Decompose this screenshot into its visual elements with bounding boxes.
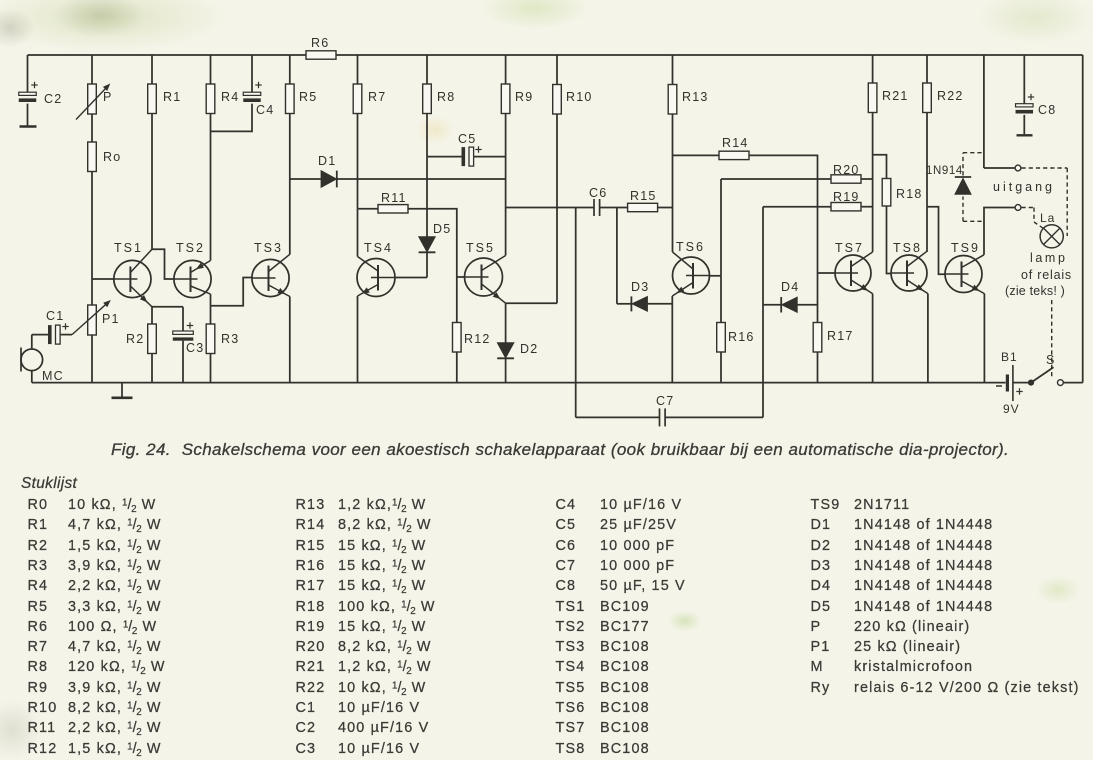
wire D3 anode to TS6 emitter column (648, 303, 673, 305)
wire R17 to bottom rail (817, 352, 819, 383)
wire R20 left riser (720, 179, 722, 276)
svg-text:(zie teks! ): (zie teks! ) (1005, 284, 1065, 298)
wire R5 column top (289, 55, 291, 84)
label C6 (589, 186, 607, 200)
wire R10 column top (556, 55, 558, 85)
label C3 (186, 341, 204, 355)
label R19 (833, 190, 860, 204)
wire mic bottom to rail (31, 371, 33, 383)
svg-text:B1: B1 (1001, 350, 1018, 364)
plus mark C3 + (187, 322, 193, 328)
label P1 (102, 312, 120, 326)
svg-text:lamp: lamp (1030, 251, 1068, 265)
resistor R13 body (668, 85, 677, 115)
label P (103, 90, 113, 104)
diode D5 (419, 237, 436, 253)
wire R19 left lead (763, 206, 831, 208)
label D4 (781, 280, 799, 294)
label R10 (566, 90, 593, 104)
plus mark C5 + (475, 146, 481, 152)
svg-text:R4: R4 (221, 90, 239, 104)
wire C7 left lead (576, 416, 660, 418)
diode 1N914 (955, 177, 971, 194)
resistor R16 body (717, 323, 726, 353)
label R17 (827, 329, 854, 343)
wire R12 to bottom rail (456, 352, 458, 383)
svg-text:TS3: TS3 (254, 241, 283, 255)
wire R18 down to TS8 base (887, 206, 892, 274)
wire TS4 base to D5 (395, 277, 427, 279)
ground symbol (112, 383, 133, 398)
wire R2 top (151, 307, 153, 324)
terminal lower uitgang (1015, 205, 1021, 211)
wire C7 right riser to R19 row (crosses rail) (762, 207, 764, 418)
svg-text:of relais: of relais (1021, 268, 1072, 282)
wire R21 column top (872, 55, 874, 83)
label R7 (368, 90, 386, 104)
label R5 (299, 90, 317, 104)
label B1 (1001, 350, 1018, 364)
svg-text:D4: D4 (781, 280, 799, 294)
svg-text:R8: R8 (437, 90, 455, 104)
wire R2 to bottom rail (151, 354, 153, 383)
svg-text:R13: R13 (682, 90, 709, 104)
terminal bar below C8 (1017, 134, 1033, 136)
wire TS1 emitter junction to C3 (152, 306, 183, 308)
wire R12 top from TS5 base (456, 277, 458, 323)
diode 1N914 dashed cathode link (963, 153, 984, 176)
label TS5 (466, 241, 495, 255)
svg-text:R15: R15 (630, 189, 657, 203)
wire R16 to bottom rail (720, 352, 722, 383)
wire R11 row to TS4 collector (357, 209, 359, 257)
wire R19 right lead (861, 206, 873, 208)
wire P1 to bottom rail (91, 335, 93, 383)
capacitor C3 stem top (182, 307, 184, 331)
wire TS6 base to R16 column (710, 275, 722, 277)
svg-text:R20: R20 (833, 163, 860, 177)
wire C4 bottom to R4 column (211, 104, 253, 132)
wire right edge return (switch to top rail) (1063, 55, 1083, 383)
capacitor C5 (462, 147, 474, 166)
wire C5 left lead (427, 156, 462, 158)
label C4 (256, 103, 274, 117)
wire bottom ground rail (32, 382, 1006, 384)
wire R9 column top (505, 55, 507, 84)
svg-text:R12: R12 (464, 332, 491, 346)
wire D1 row to TS3 collector (289, 179, 291, 255)
diode D3 (631, 296, 647, 311)
parts list heading (21, 475, 77, 493)
wire C1 to P1 wiper (60, 334, 72, 336)
wire R13 down to TS6 collector (672, 208, 674, 253)
wire R7 down to R11 row (357, 114, 359, 209)
wire R8 column down to D5 (crosses R11) (426, 157, 428, 237)
svg-text:MC: MC (42, 369, 64, 383)
wire D3 riser from C6-R15 junction (616, 208, 618, 304)
transistor TS2 (BC177) (174, 260, 211, 297)
wire C4 column top (251, 55, 253, 94)
resistor R14 body (719, 151, 749, 159)
label R6 (311, 36, 329, 50)
figure caption (111, 440, 1009, 460)
resistor R19 body (831, 203, 861, 211)
node R22 junction jog to TS9 base (927, 207, 945, 275)
wire R8 column top (426, 55, 428, 84)
label TS1 (114, 241, 143, 255)
svg-text:R2: R2 (126, 332, 144, 346)
svg-text:C5: C5 (458, 132, 476, 146)
resistor R5 body (286, 84, 295, 114)
wire TS5 emitter row to R10 column (506, 302, 557, 304)
svg-text:uitgang: uitgang (993, 180, 1055, 194)
resistor P (220k pot) body (88, 84, 97, 114)
svg-text:R1: R1 (163, 90, 181, 104)
wire R3 to bottom rail (210, 354, 212, 383)
wire R22 down to junction (926, 113, 928, 207)
svg-text:TS5: TS5 (466, 241, 495, 255)
wire TS9 emitter to bottom rail (983, 294, 985, 383)
wire TS7 base row (818, 272, 836, 274)
transistor TS3 (BC108) (252, 254, 290, 296)
transistor TS1 (BC109) (114, 249, 152, 306)
wire P column top (91, 55, 93, 84)
transistor TS7 (BC108) (835, 252, 873, 294)
wire R16 top (720, 276, 722, 323)
label TS3 (254, 241, 283, 255)
wire R1 down to TS1 collector elbow (151, 114, 153, 250)
resistor R9 body (501, 84, 510, 114)
potentiometer P1 wiper arrow (72, 301, 110, 335)
wire D5 cathode to TS4 base row (426, 252, 428, 277)
label 1N914 (926, 165, 963, 177)
resistor P1 (25k pot) body (88, 305, 97, 335)
wire dashed lamp to switch row (1051, 300, 1053, 379)
svg-text:R16: R16 (728, 330, 755, 344)
terminal upper uitgang (1015, 165, 1021, 171)
svg-text:D1: D1 (318, 154, 336, 168)
wire D4 anode to R17 column (797, 304, 817, 306)
label (zie tekst) (1005, 284, 1065, 298)
wire TS8 emitter to bottom rail (927, 294, 929, 383)
svg-text:C2: C2 (44, 92, 62, 106)
wire P to Ro (91, 114, 93, 142)
svg-text:D2: D2 (520, 342, 538, 356)
svg-text:R5: R5 (299, 90, 317, 104)
parts list columns (28, 495, 166, 759)
transistor TS5 (BC108) (465, 256, 506, 304)
svg-text:R7: R7 (368, 90, 386, 104)
label C7 (656, 394, 674, 408)
wire R21 down through junctions to TS7 collector (872, 113, 874, 253)
svg-text:C1: C1 (46, 309, 64, 323)
label R22 (937, 89, 964, 103)
label C1 (46, 309, 64, 323)
label La (1040, 211, 1055, 225)
wire R20 left lead (721, 178, 831, 180)
plus mark C4 + (255, 82, 261, 88)
battery B1 (1007, 365, 1013, 401)
label MC (42, 369, 64, 383)
resistor R22 body (923, 83, 932, 113)
svg-text:TS8: TS8 (893, 241, 922, 255)
svg-text:TS9: TS9 (951, 241, 980, 255)
svg-text:R11: R11 (381, 191, 407, 205)
label R13 (682, 90, 709, 104)
svg-text:P1: P1 (102, 312, 120, 326)
transistor TS4 (BC108) (357, 257, 395, 297)
lamp La (1040, 225, 1063, 248)
wire R22 column top (926, 55, 928, 83)
svg-text:R10: R10 (566, 90, 593, 104)
label R8 (437, 90, 455, 104)
wire to upper output terminal (984, 167, 1015, 169)
wire R11 right lead and drop to TS5 base (408, 209, 465, 277)
label 9V (1003, 402, 1020, 416)
svg-text:TS4: TS4 (364, 241, 393, 255)
svg-text:R14: R14 (722, 136, 749, 150)
label TS6 (676, 240, 705, 254)
svg-text:D3: D3 (631, 280, 649, 294)
capacitor C4 (243, 92, 261, 102)
label uitgang (993, 180, 1055, 194)
label D5 (433, 222, 451, 236)
label R14 (722, 136, 749, 150)
node TS2 collector junction to TS3 base (211, 278, 252, 306)
label of relais (1021, 268, 1072, 282)
plus mark C1 + (62, 323, 68, 329)
terminal bar below C2 (20, 125, 37, 127)
label TS7 (835, 241, 864, 255)
wire R20 right lead (861, 178, 873, 180)
transistor TS9 (2N1711) (945, 255, 984, 294)
wire R1 column top (151, 55, 153, 84)
wire R4 column top (210, 55, 212, 84)
label lamp (1030, 251, 1068, 265)
capacitor C2 stem (27, 55, 29, 127)
svg-text:C6: C6 (589, 186, 607, 200)
wire R7 column top (357, 55, 359, 84)
wire C5 right lead (474, 156, 506, 158)
svg-text:R3: R3 (221, 332, 239, 346)
node TS1 collector to TS2 base jog (152, 249, 174, 279)
wire R9 column to TS5 collector (505, 208, 507, 256)
svg-text:La: La (1040, 211, 1055, 225)
wire R10 down to TS5 emitter row (556, 114, 558, 303)
wire R8 down to C5 junction (426, 114, 428, 157)
wire R5 down to D1 row (289, 114, 291, 180)
diode D4 (781, 297, 797, 313)
wire R22 to TS8 collector (926, 207, 928, 252)
resistor R18 body (882, 179, 891, 207)
resistor R6 body (306, 51, 336, 59)
svg-text:D5: D5 (433, 222, 451, 236)
label R12 (464, 332, 491, 346)
wire TS9 collector riser (984, 208, 1015, 255)
wire mic top stem (31, 335, 33, 349)
wire dashed upper terminal to lamp (1022, 168, 1068, 236)
svg-text:TS1: TS1 (114, 241, 143, 255)
svg-text:C3: C3 (186, 341, 204, 355)
resistor R2 body (148, 324, 157, 354)
label Ro (103, 150, 121, 164)
label TS8 (893, 241, 922, 255)
plus mark battery + (1016, 388, 1022, 394)
wire mic to C1 (32, 334, 48, 336)
transistor TS6 (BC108) (672, 252, 709, 296)
diode D1 anode wire (290, 178, 321, 180)
wire R14 left lead (673, 154, 720, 156)
svg-text:R21: R21 (882, 89, 909, 103)
capacitor C3 (173, 331, 194, 341)
resistor Ro body (88, 142, 97, 172)
resistor R17 body (813, 323, 822, 353)
wire C6 to R15 (600, 207, 628, 209)
wire TS1 base from P1 column (92, 278, 114, 280)
microphone MC (21, 348, 43, 372)
label D3 (631, 280, 649, 294)
label R21 (882, 89, 909, 103)
label R15 (630, 189, 657, 203)
plus mark C2 + (31, 82, 37, 88)
wire R4 down to TS2 emitter elbow (210, 114, 212, 261)
resistor R8 body (423, 84, 432, 114)
resistor R20 body (831, 175, 861, 183)
wire R9 down through C5 and D1 junctions (505, 114, 507, 208)
svg-text:R17: R17 (827, 329, 854, 343)
resistor R21 body (868, 83, 877, 113)
potentiometer P wiper arrow (76, 84, 110, 119)
wire R13 down to R14 junction (672, 114, 674, 155)
label R1 (163, 90, 181, 104)
label S (1046, 353, 1055, 367)
resistor R15 body (628, 203, 658, 211)
svg-text:R18: R18 (896, 187, 923, 201)
capacitor C8 (1016, 104, 1034, 114)
wire battery to switch (1013, 382, 1028, 384)
wire D2 top (505, 303, 507, 342)
wire dashed lower terminal to lamp top (1022, 208, 1044, 229)
label D2 (520, 342, 538, 356)
wire D2 cathode to bottom rail (505, 358, 507, 382)
svg-text:TS2: TS2 (176, 241, 205, 255)
resistor R4 body (206, 84, 215, 114)
wire TS7 emitter to bottom rail (872, 294, 874, 383)
svg-text:R19: R19 (833, 190, 860, 204)
wire R13 down to R15 junction (672, 155, 674, 207)
capacitor C2 (19, 92, 37, 102)
node TS5 collector row to C6 (506, 207, 594, 209)
label TS9 (951, 241, 980, 255)
label R9 (515, 90, 533, 104)
wire TS3 emitter to bottom rail (289, 297, 291, 383)
wire R3 top (210, 306, 212, 324)
svg-text:1N914: 1N914 (926, 165, 963, 177)
battery minus mark (996, 385, 1002, 387)
capacitor C6 (594, 199, 600, 216)
wire TS4 emitter to bottom rail (357, 296, 359, 383)
svg-text:Ro: Ro (103, 150, 121, 164)
label TS4 (364, 241, 393, 255)
wire R14 right lead and drop to TS7 base (749, 155, 818, 322)
paper texture blobs (0, 0, 230, 52)
label C5 (458, 132, 476, 146)
wire D1 cathode to R9 column (337, 178, 506, 180)
wire Ro down to P1 (91, 172, 93, 306)
wire TS2 collector elbow down (210, 294, 212, 306)
svg-text:R6: R6 (311, 36, 329, 50)
wire R18 top elbow from R21 column (873, 155, 887, 179)
diode D2 (497, 343, 514, 359)
label TS2 (176, 241, 205, 255)
svg-text:R22: R22 (937, 89, 964, 103)
wire C8 column top (1023, 55, 1025, 135)
svg-text:TS6: TS6 (676, 240, 705, 254)
label R18 (896, 187, 923, 201)
wire D4 cathode to C7 riser (763, 304, 781, 306)
node C6 left junction down to C7 (crosses rail) (575, 208, 577, 418)
wire D3 cathode to riser (617, 303, 632, 305)
svg-text:S: S (1046, 353, 1055, 367)
wire C7 right lead (665, 416, 763, 418)
label D1 (318, 154, 336, 168)
resistor R12 body (453, 323, 462, 353)
svg-text:R9: R9 (515, 90, 533, 104)
switch S (1028, 367, 1063, 386)
label R2 (126, 332, 144, 346)
capacitor C7 (660, 408, 666, 426)
label C8 (1038, 103, 1056, 117)
wire R11 left lead (358, 208, 379, 210)
resistor R1 body (148, 84, 157, 114)
resistor R7 body (353, 84, 362, 114)
label R11 (381, 191, 407, 205)
label R20 (833, 163, 860, 177)
capacitor C1 (48, 325, 60, 344)
svg-text:C8: C8 (1038, 103, 1056, 117)
wire R13 column top (672, 55, 674, 85)
svg-text:P: P (103, 90, 113, 104)
svg-text:C7: C7 (656, 394, 674, 408)
transistor TS8 (BC108) (891, 251, 928, 293)
diode 1N914 dashed anode link (963, 197, 984, 222)
wire top supply rail (28, 54, 1083, 56)
resistor R11 body (378, 205, 408, 213)
label C2 (44, 92, 62, 106)
svg-text:9V: 9V (1003, 402, 1020, 416)
plus mark C8 + (1028, 94, 1034, 100)
label R4 (221, 90, 239, 104)
svg-text:TS7: TS7 (835, 241, 864, 255)
label R16 (728, 330, 755, 344)
wire C3 to bottom rail (182, 341, 184, 383)
label R3 (221, 332, 239, 346)
wire output column from top rail (983, 55, 985, 168)
resistor R10 body (553, 85, 562, 115)
wire TS6 emitter to bottom rail with D3 junction (671, 296, 673, 383)
resistor R3 body (206, 324, 215, 354)
svg-text:C4: C4 (256, 103, 274, 117)
diode D1 (321, 171, 337, 188)
wire R15 to R13 column (658, 207, 673, 209)
